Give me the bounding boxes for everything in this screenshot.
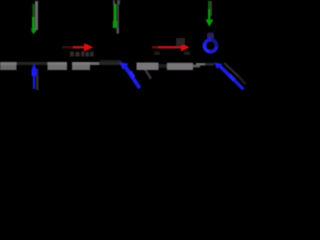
reaction arrow 1 red shaft <box>73 46 85 49</box>
blue ring bright lower-left arc <box>204 44 210 52</box>
reaction arrow 2 red head <box>181 43 190 52</box>
blue N amine bar lower <box>33 76 35 89</box>
reaction arrow 2 red shaft <box>152 46 182 49</box>
gray caption box B fading right tail <box>193 65 200 68</box>
blue N attack arrow 2 head <box>120 62 129 70</box>
caption box C top strip <box>48 62 68 65</box>
wire chain 2 faint upper line <box>100 60 121 62</box>
wire chain C-C backbone dark segment <box>17 62 48 65</box>
blue arrow 2 shaft bright segment <box>129 71 136 79</box>
blue N attack arrow 3 head <box>214 62 222 69</box>
green leaving Cl bar wide lower <box>113 21 117 28</box>
gray C-Cl bond parallel line <box>35 1 38 30</box>
faint caption below arrow 2 left <box>154 52 160 56</box>
gray C-Cl bond stub below green <box>117 28 120 34</box>
blue N-plus ring <box>205 40 217 52</box>
blue N attack arrow 1 head pointing up <box>31 63 37 70</box>
green departed Cl arrow shaft <box>208 9 210 20</box>
gray C-Cl bond parallel line <box>117 4 119 28</box>
green departed Cl arrow shaft dim top <box>208 1 210 9</box>
blue N attack arrow 2 shaft <box>123 64 142 89</box>
caption box left top strip <box>0 62 17 65</box>
dark caption above arrow 2 <box>176 38 185 46</box>
caption box D left of structure 2 <box>72 62 90 70</box>
wire chain 3 dark segment <box>205 63 214 66</box>
dark smudge between arrow and ring <box>207 33 214 40</box>
reaction arrow 2 red shaft dark tail <box>152 46 158 49</box>
green leaving-group arrow Cl head <box>31 29 36 35</box>
gray N-H bond parallel line <box>36 76 39 90</box>
gray C-N forming bond diagonal 2 <box>143 67 152 80</box>
gray caption box A <box>137 63 159 71</box>
gray top prong right <box>117 0 120 5</box>
blue N amine bulge label <box>32 69 37 77</box>
gray C-N bond diagonal 3 upper <box>224 63 241 78</box>
green head blob <box>32 29 37 33</box>
green departed Cl arrow head <box>206 20 214 27</box>
caption box left of structure 1 <box>0 62 17 70</box>
blue arrow 3 shaft bright segment <box>228 74 237 82</box>
green leaving Cl bar narrow top <box>114 4 117 22</box>
wire chain 2 dark segment <box>99 62 121 65</box>
caption box D top strip <box>72 62 90 65</box>
gray diagonal 3 faint lower continuation <box>238 76 246 85</box>
caption box C right of structure 1 <box>48 62 68 70</box>
green leaving-group arrow Cl shaft bright lower <box>32 17 35 29</box>
faint caption below arrow 2 right <box>184 52 190 56</box>
gray parallel stub right of green arrow <box>210 1 212 16</box>
navy shadow right of blue bulge <box>37 69 39 77</box>
wire chain 2 gray segment <box>90 62 99 65</box>
caption text below arrow 1 <box>70 52 74 57</box>
green leaving-group arrow Cl shaft dim upper <box>32 4 34 18</box>
blue ring dim upper-right arc <box>212 40 217 47</box>
blue N attack arrow 3 shaft <box>218 64 245 90</box>
reaction arrow 1 red head <box>84 43 93 52</box>
wire chain 3 gray segment <box>196 63 206 66</box>
gray caption box B <box>167 63 193 70</box>
reaction arrow 1 red shaft dark tail <box>62 46 74 49</box>
faint gap between boxes A and B <box>159 64 167 68</box>
gray top prong left <box>113 0 115 5</box>
